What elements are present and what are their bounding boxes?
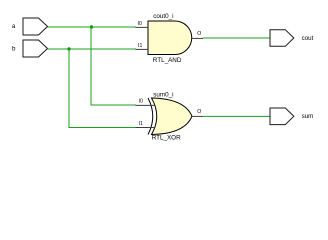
output port cout — [270, 30, 314, 47]
svg-text:I0: I0 — [138, 21, 142, 27]
pin I1 of AND — [136, 43, 149, 49]
input port a — [12, 18, 48, 35]
svg-text:b: b — [12, 45, 16, 52]
node a junction — [90, 25, 93, 28]
svg-text:cout: cout — [302, 35, 314, 42]
pin I0 of XOR — [136, 98, 156, 105]
output port sum — [270, 108, 313, 125]
input port b — [12, 40, 47, 57]
wire b junction down to XOR I1 — [69, 49, 136, 128]
wire AND O to cout port — [203, 37, 270, 39]
svg-text:sum0_i: sum0_i — [153, 91, 173, 98]
pin I0 of AND — [136, 21, 149, 27]
svg-text:O: O — [197, 109, 201, 115]
svg-text:sum: sum — [302, 113, 314, 120]
svg-text:I1: I1 — [138, 43, 142, 49]
and-gate U: cout0_i RTL_AND — [148, 13, 192, 64]
wire XOR O to sum port — [203, 115, 270, 117]
svg-text:a: a — [12, 23, 16, 30]
pin O of AND — [192, 31, 203, 38]
node b junction — [67, 47, 70, 50]
wire a junction down to XOR I0 — [91, 27, 136, 105]
wire b to AND I1 — [48, 48, 137, 50]
wire a to AND I0 — [48, 26, 137, 28]
pin O of XOR — [192, 109, 203, 116]
svg-text:I1: I1 — [139, 121, 143, 127]
xor-gate U: sum0_i RTL_XOR — [148, 91, 192, 141]
svg-text:cout0_i: cout0_i — [153, 13, 173, 20]
pin I1 of XOR — [136, 121, 156, 128]
svg-text:O: O — [197, 31, 201, 37]
svg-text:RTL_XOR: RTL_XOR — [152, 134, 181, 141]
svg-text:I0: I0 — [139, 98, 143, 104]
svg-text:RTL_AND: RTL_AND — [153, 57, 182, 64]
